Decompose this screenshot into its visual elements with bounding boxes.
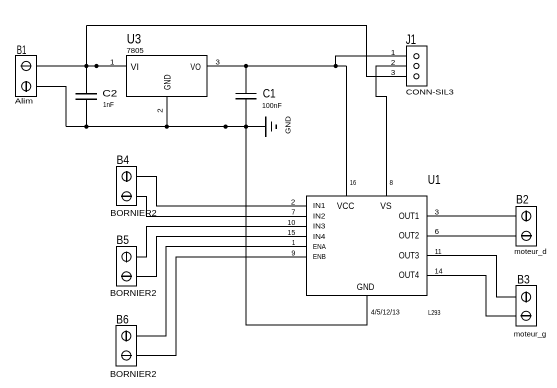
capacitor C2 1nF [76, 66, 118, 127]
junction C1 top on +5V net [244, 64, 248, 68]
svg-text:U3: U3 [127, 31, 141, 46]
svg-text:100nF: 100nF [262, 103, 282, 110]
svg-text:14: 14 [435, 269, 443, 276]
svg-text:3: 3 [391, 70, 396, 77]
svg-text:VCC: VCC [337, 201, 355, 211]
wire U1 OUT2 to B2 pin2 [427, 235, 516, 237]
svg-text:BORNIER2: BORNIER2 [110, 289, 157, 298]
svg-text:B1: B1 [17, 43, 27, 57]
svg-text:11: 11 [435, 249, 442, 256]
connector B3 moteur_g [514, 272, 546, 338]
svg-text:1: 1 [110, 60, 115, 67]
svg-text:VI: VI [131, 62, 139, 72]
connector B1 Alim [15, 43, 37, 106]
wire B4 pin1 to U1 IN1 [137, 177, 307, 207]
wire U1 OUT4 to B3 pin2 [427, 275, 516, 316]
svg-text:2: 2 [157, 108, 164, 113]
svg-text:moteur_d: moteur_d [514, 247, 546, 256]
svg-text:OUT3: OUT3 [399, 250, 419, 260]
connector J1 CONN-SIL3 [406, 32, 454, 96]
junction dot on B1/VI wire [94, 64, 98, 68]
svg-text:U1: U1 [428, 172, 441, 187]
connector B5 BORNIER2 [110, 233, 157, 298]
svg-text:B5: B5 [116, 233, 129, 247]
svg-text:1nF: 1nF [103, 102, 114, 109]
svg-text:15: 15 [287, 230, 295, 237]
wire U1 OUT3 to B3 pin1 [427, 256, 516, 297]
svg-text:7805: 7805 [127, 48, 144, 55]
svg-text:4/5/12/13: 4/5/12/13 [371, 309, 400, 316]
svg-text:VS: VS [380, 201, 391, 211]
svg-text:7: 7 [291, 210, 295, 217]
svg-text:Alim: Alim [15, 97, 33, 106]
svg-text:B2: B2 [516, 193, 529, 207]
svg-text:CONN-SIL3: CONN-SIL3 [406, 88, 454, 97]
svg-text:10: 10 [287, 220, 295, 227]
svg-text:IN4: IN4 [313, 232, 326, 241]
wire U3 VO to VCC column [207, 65, 346, 67]
svg-text:B3: B3 [517, 272, 530, 286]
wire U3 pin2 GND to rail [166, 97, 168, 127]
svg-text:1: 1 [292, 240, 295, 247]
svg-text:GND: GND [163, 74, 173, 90]
wire B6 pin1 to U1 ENA [137, 247, 307, 336]
regulator U3 7805 [126, 31, 207, 96]
svg-text:VO: VO [190, 62, 200, 72]
wire VCC drop to U1 pin 16 [346, 66, 348, 196]
svg-text:GND: GND [284, 115, 293, 133]
svg-text:IN2: IN2 [313, 212, 326, 221]
svg-text:ENB: ENB [313, 252, 326, 261]
svg-text:3: 3 [216, 60, 221, 67]
connector B6 BORNIER2 [110, 312, 157, 379]
driver IC U1 L293 [307, 172, 441, 317]
svg-text:IN3: IN3 [313, 222, 326, 231]
svg-text:9: 9 [291, 250, 295, 257]
ground symbol [266, 115, 293, 137]
junction J1 pin1 tap on +5V net [334, 64, 338, 68]
wire vertical drop from top rail to B1/VI net [85, 26, 87, 67]
svg-text:BORNIER2: BORNIER2 [110, 209, 157, 218]
junction C2 bottom on ground rail [84, 125, 88, 129]
svg-text:2: 2 [291, 199, 296, 206]
svg-text:IN1: IN1 [313, 201, 326, 210]
wire B1 pin1 to U3 VI [37, 65, 127, 67]
svg-text:B6: B6 [116, 312, 129, 326]
svg-text:OUT4: OUT4 [399, 270, 419, 280]
svg-text:3: 3 [435, 209, 440, 216]
junction C1 bottom on ground rail [244, 125, 248, 129]
svg-text:C1: C1 [263, 87, 276, 101]
svg-text:6: 6 [435, 229, 440, 236]
svg-text:moteur_g: moteur_g [514, 330, 546, 339]
svg-text:BORNIER2: BORNIER2 [110, 370, 157, 379]
wire ground rail down to U1 GND pins [246, 127, 367, 325]
svg-text:16: 16 [350, 180, 356, 187]
wire B5 pin1 to U1 IN3 [137, 227, 307, 257]
wire B5 pin2 to U1 IN4 [137, 237, 307, 277]
junction on B1/VI net at vertical drop [84, 64, 88, 68]
svg-text:1: 1 [391, 50, 396, 57]
svg-text:ENA: ENA [313, 242, 326, 251]
svg-text:OUT2: OUT2 [399, 231, 419, 241]
svg-text:GND: GND [357, 282, 375, 292]
capacitor C1 100nF [236, 66, 282, 127]
connector B4 BORNIER2 [110, 153, 157, 218]
svg-text:8: 8 [390, 180, 394, 187]
svg-text:2: 2 [391, 60, 396, 67]
svg-text:B4: B4 [117, 153, 130, 167]
svg-text:C2: C2 [102, 88, 117, 98]
wire B6 pin2 to U1 ENB [137, 257, 307, 356]
wire B1 pin2 down to ground rail [37, 86, 66, 126]
wire B4 pin2 to U1 IN2 [137, 196, 307, 216]
svg-text:OUT1: OUT1 [399, 211, 419, 221]
connector B2 moteur_d [514, 193, 546, 257]
svg-text:L293: L293 [428, 310, 440, 317]
wire ground rail [66, 126, 266, 128]
wire J1 pin2 to U1 VS pin 8 [376, 66, 406, 196]
wire top rail from B1 net to J1 pin 3 [86, 26, 406, 77]
wire J1 pin1 tap to +5V net [336, 56, 407, 66]
junction U3 GND on ground rail [165, 125, 169, 129]
junction dot on ground rail [224, 125, 228, 129]
svg-text:J1: J1 [406, 32, 416, 47]
wire U1 OUT1 to B2 pin1 [427, 215, 516, 217]
